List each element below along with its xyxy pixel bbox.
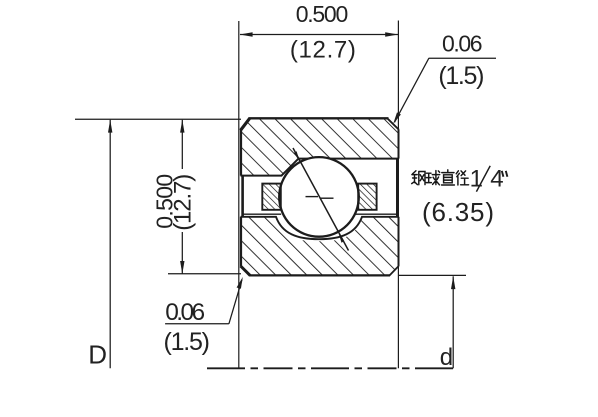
svg-text:(1.5): (1.5) [164, 328, 211, 356]
cage land line left [242, 213, 281, 215]
leader line to top-right chamfer [395, 58, 429, 122]
ball diameter arrowhead lower [338, 232, 344, 243]
right face outer ring [398, 129, 400, 158]
outer ring bore edge (race side) [241, 159, 399, 176]
left face thin line / extension (full height) [238, 21, 240, 368]
bore extension line right [399, 274, 467, 276]
inner ring chamfer bottom-right [389, 266, 398, 276]
svg-text:(12.7): (12.7) [170, 174, 197, 231]
top dimension arrowhead right [385, 32, 398, 36]
svg-text:D: D [88, 340, 107, 370]
char qiu (ball) [426, 173, 431, 182]
inner ring race edge [241, 217, 399, 239]
outer ring section (top band, hatched) [241, 118, 399, 175]
D dimension arrowhead up [108, 120, 112, 133]
cage land line right [355, 213, 398, 215]
axis centerline [207, 367, 454, 369]
inner ring chamfer bottom-left (0.06x45) [241, 266, 251, 276]
svg-text:d: d [440, 344, 453, 371]
left dimension arrowhead up [180, 120, 184, 133]
d bore diameter dimension line [452, 276, 454, 368]
ball size note: steel ball diameter 1/4 inch [412, 170, 469, 185]
top face extension line left [75, 118, 241, 120]
left dimension arrowhead down [180, 261, 184, 274]
char jing (diameter) [456, 171, 468, 185]
svg-text:1: 1 [470, 166, 483, 193]
bottom face extension line left [168, 273, 241, 275]
left face outer ring [240, 130, 242, 176]
ball diameter arrowhead upper [294, 151, 300, 162]
leader arrowhead at top-right chamfer [393, 112, 401, 123]
inner ring section (bottom band, hatched) [241, 216, 399, 275]
d dimension arrowhead up [451, 276, 455, 289]
cage section right (hatched) [358, 184, 376, 210]
svg-text:(1.5): (1.5) [438, 62, 484, 90]
svg-text:(12.7): (12.7) [290, 37, 356, 64]
outer ring chamfer top-right (0.06x45) [387, 118, 398, 129]
cage section left (hatched) [262, 184, 281, 210]
outer ring top face [249, 117, 389, 119]
left height dimension line upper segment [181, 120, 183, 169]
char zhi (straight) [442, 170, 455, 185]
inner ring bottom face (bore) [250, 274, 391, 276]
right face inner ring [398, 217, 400, 266]
char gang (steel) [412, 171, 418, 185]
ball center mark left tick [306, 196, 319, 198]
top width dimension line [240, 34, 398, 36]
left mid-band face bar [241, 176, 244, 217]
top dimension arrowhead left [240, 32, 253, 36]
ball center mark right tick [321, 197, 334, 199]
D outer diameter dimension line [109, 120, 111, 368]
svg-text:0.500: 0.500 [296, 1, 349, 27]
ball diameter line (contact angle diagonal) [293, 148, 349, 251]
fraction slash [476, 166, 490, 192]
leader shelf line top-right [429, 57, 496, 59]
leader shelf line bottom-left [165, 323, 229, 325]
left face inner ring [240, 217, 242, 266]
right mid-band face bar [396, 159, 399, 217]
svg-text:4: 4 [490, 166, 503, 193]
outer ring chamfer top-left (0.06x45) [241, 118, 250, 130]
svg-text:0.06: 0.06 [442, 31, 483, 57]
leader arrowhead at bottom-left chamfer [237, 277, 243, 289]
leader line to bottom-left chamfer [229, 280, 242, 324]
left height dimension line lower segment [181, 232, 183, 274]
svg-text:(6.35): (6.35) [422, 197, 494, 227]
ball [279, 157, 359, 237]
right face thin line / extension (full height) [397, 21, 399, 369]
svg-text:0.06: 0.06 [165, 299, 205, 326]
inch double-prime mark [502, 171, 508, 177]
